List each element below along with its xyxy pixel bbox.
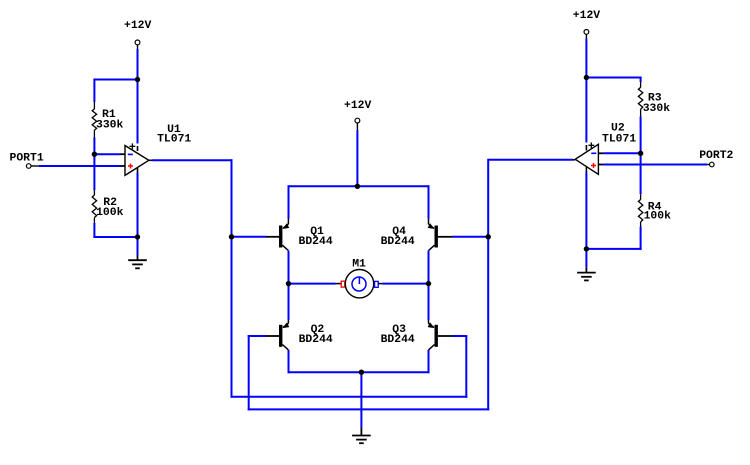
pin: U2 output stub bbox=[573, 159, 575, 161]
wire: motor right lead bbox=[382, 283, 428, 285]
wire: R1 bottom to junction and to R2 bbox=[93, 138, 95, 191]
wire: bridge bottom rail bbox=[288, 371, 430, 373]
transistor Q1 bbox=[266, 219, 289, 251]
wire: bridge top rail bbox=[288, 185, 430, 187]
wire: Q4 collector down to motor node bbox=[428, 251, 430, 285]
transistor Q4 bbox=[428, 219, 452, 251]
svg-text:330k: 330k bbox=[96, 119, 124, 131]
wire: Q2 base horizontal bbox=[248, 335, 266, 337]
wire: right bridge vertical upper (Q4 emitter) bbox=[428, 185, 430, 218]
resistor R4 bbox=[638, 194, 642, 226]
node: junction net B / Q4 base bbox=[486, 234, 491, 239]
pin: U1 V+ stub bbox=[137, 146, 139, 151]
power +12V (right) terminal circle bbox=[584, 30, 589, 35]
op-amp U1 body bbox=[125, 146, 149, 176]
wire: Q2 collector to bottom rail bbox=[288, 350, 290, 373]
node: junction +12V / R1 bbox=[135, 77, 140, 82]
pin: U2 V+ stub bbox=[585, 145, 587, 151]
pin: U1 V- stub bbox=[137, 168, 139, 173]
marker: U1 V+ plus sign (black) bbox=[130, 143, 136, 149]
op-amp U2 body bbox=[575, 144, 598, 174]
power +12V (right) pin stub bbox=[585, 34, 587, 38]
wire: net A up to Q3 base (x=466.3) bbox=[465, 336, 467, 398]
svg-text:100k: 100k bbox=[644, 211, 672, 223]
wire: net A bottom horizontal (y=396.8) bbox=[231, 396, 468, 398]
wire: net A vertical (x=231.5) bbox=[231, 159, 233, 397]
svg-text:PORT1: PORT1 bbox=[10, 152, 44, 164]
node: junction +12V / R3 bbox=[584, 75, 589, 80]
transistor Q3 bbox=[428, 320, 452, 350]
pin: motor right lead stub (black) bbox=[378, 283, 382, 285]
power +12V (middle) pin stub bbox=[356, 123, 358, 130]
node: junction R4 / U2 V- / ground bbox=[584, 246, 589, 251]
svg-text:BD244: BD244 bbox=[299, 236, 333, 248]
wire: Q3 collector to bottom rail bbox=[428, 350, 430, 373]
wire: top horizontal to R3 bbox=[586, 77, 641, 79]
svg-text:+12V: +12V bbox=[344, 100, 372, 112]
wire: left bridge vertical upper (Q1 emitter) bbox=[288, 185, 290, 218]
svg-text:TL071: TL071 bbox=[602, 133, 636, 145]
resistor R1 bbox=[92, 102, 96, 138]
wire: R1 top lead vertical bbox=[93, 79, 95, 103]
port PORT1 pin stub bbox=[31, 165, 39, 167]
wire: R2 bottom horizontal to ground line bbox=[93, 236, 137, 238]
wire: net B vertical left (x=248.7) to Q2 base bbox=[248, 335, 250, 410]
svg-text:100k: 100k bbox=[96, 207, 124, 219]
node: junction net A / Q1 base bbox=[229, 234, 234, 239]
svg-text:+12V: +12V bbox=[124, 20, 152, 32]
port PORT1 terminal circle bbox=[26, 164, 31, 169]
wire: +12V left rail down to U1 V+ bbox=[137, 49, 139, 144]
svg-text:PORT2: PORT2 bbox=[699, 150, 733, 162]
port PORT2 terminal circle bbox=[710, 162, 715, 167]
pin: U1 inverting input stub bbox=[120, 153, 126, 155]
wire: motor left lead bbox=[289, 283, 336, 285]
power +12V (left) pin stub bbox=[137, 45, 139, 49]
resistor R3 bbox=[638, 82, 642, 117]
ground (left) bbox=[128, 255, 147, 268]
marker: U1 non-inverting plus (red) bbox=[128, 164, 133, 169]
wire: to Q1 base bbox=[232, 236, 267, 238]
resistor R2 bbox=[92, 190, 96, 223]
wire: divider to U1 inverting input bbox=[94, 153, 120, 155]
pin: U1 output stub bbox=[149, 159, 152, 161]
wire: left bridge vertical (motor to Q2) bbox=[288, 284, 290, 320]
svg-text:M1: M1 bbox=[352, 259, 366, 271]
wire: bottom rail down to ground bbox=[360, 372, 362, 428]
wire: R4 bottom horizontal to ground line bbox=[586, 248, 641, 250]
wire: U1 V- down to ground bbox=[137, 173, 139, 255]
wire: net B bottom horizontal (y=409.4) bbox=[248, 408, 490, 410]
marker: U2 inverting minus (blue) bbox=[591, 152, 596, 154]
svg-text:TL071: TL071 bbox=[157, 133, 191, 145]
marker: U2 V+ plus sign (black) bbox=[588, 142, 594, 148]
ground (middle) bbox=[352, 428, 371, 443]
node: junction bottom rail / ground bbox=[359, 370, 364, 375]
wire: right bridge vertical (motor to Q3) bbox=[428, 284, 430, 320]
svg-text:BD244: BD244 bbox=[381, 334, 415, 346]
pin: U2 non-inverting input stub bbox=[598, 164, 604, 166]
wire: Q1 collector down to motor node bbox=[288, 251, 290, 285]
node: junction R1/R2/U1 inverting input bbox=[92, 152, 97, 157]
power +12V (left) terminal circle bbox=[135, 40, 140, 45]
wire: R4 bottom lead bbox=[640, 227, 642, 250]
motor M1 bbox=[341, 270, 378, 298]
pin: U2 V- stub bbox=[585, 167, 587, 173]
node: junction R3/R4/U2 inverting input bbox=[638, 151, 643, 156]
ground (right) bbox=[577, 268, 596, 281]
wire: PORT1 to U1 non-inverting input bbox=[39, 165, 121, 167]
wire: U2 V- down to ground bbox=[585, 173, 587, 268]
pin: U1 non-inverting input stub bbox=[120, 165, 126, 167]
wire: R2 bottom lead bbox=[93, 223, 95, 238]
marker: U1 inverting minus (blue) bbox=[128, 153, 133, 155]
wire: Q3 base horizontal bbox=[452, 335, 467, 337]
pin: U2 inverting input stub bbox=[598, 152, 604, 154]
wire: U2 non-inverting input to PORT2 bbox=[603, 164, 707, 166]
wire: net B vertical right (x=488.2) bbox=[487, 159, 489, 411]
wire: to Q4 base bbox=[452, 236, 488, 238]
wire: U1 output horizontal bbox=[152, 159, 233, 161]
svg-text:BD244: BD244 bbox=[299, 334, 333, 346]
port PORT2 pin stub bbox=[707, 164, 709, 166]
node: junction left bridge / motor bbox=[286, 281, 291, 286]
svg-text:330k: 330k bbox=[643, 103, 671, 115]
wire: top horizontal to R1 bbox=[93, 79, 137, 81]
wire: R3 top lead vertical bbox=[640, 77, 642, 83]
transistor Q2 bbox=[266, 320, 289, 350]
power +12V (middle) terminal circle bbox=[355, 118, 360, 123]
pin: motor left lead stub (black) bbox=[336, 283, 341, 285]
svg-text:+12V: +12V bbox=[573, 10, 601, 22]
node: junction R2 / U1 V- / ground bbox=[135, 234, 140, 239]
wire: divider to U2 inverting input bbox=[603, 152, 640, 154]
node: junction right bridge / motor bbox=[426, 281, 431, 286]
wire: +12V middle down to top rail bbox=[356, 130, 358, 187]
wire: U2 output horizontal bbox=[488, 159, 573, 161]
marker: U2 non-inverting plus (red) bbox=[591, 163, 596, 168]
node: junction +12V / top rail bbox=[355, 184, 360, 189]
svg-text:BD244: BD244 bbox=[381, 236, 415, 248]
wire: +12V right rail down to U2 V+ bbox=[585, 39, 587, 143]
wire: R3 bottom to junction and R4 bbox=[640, 117, 642, 195]
